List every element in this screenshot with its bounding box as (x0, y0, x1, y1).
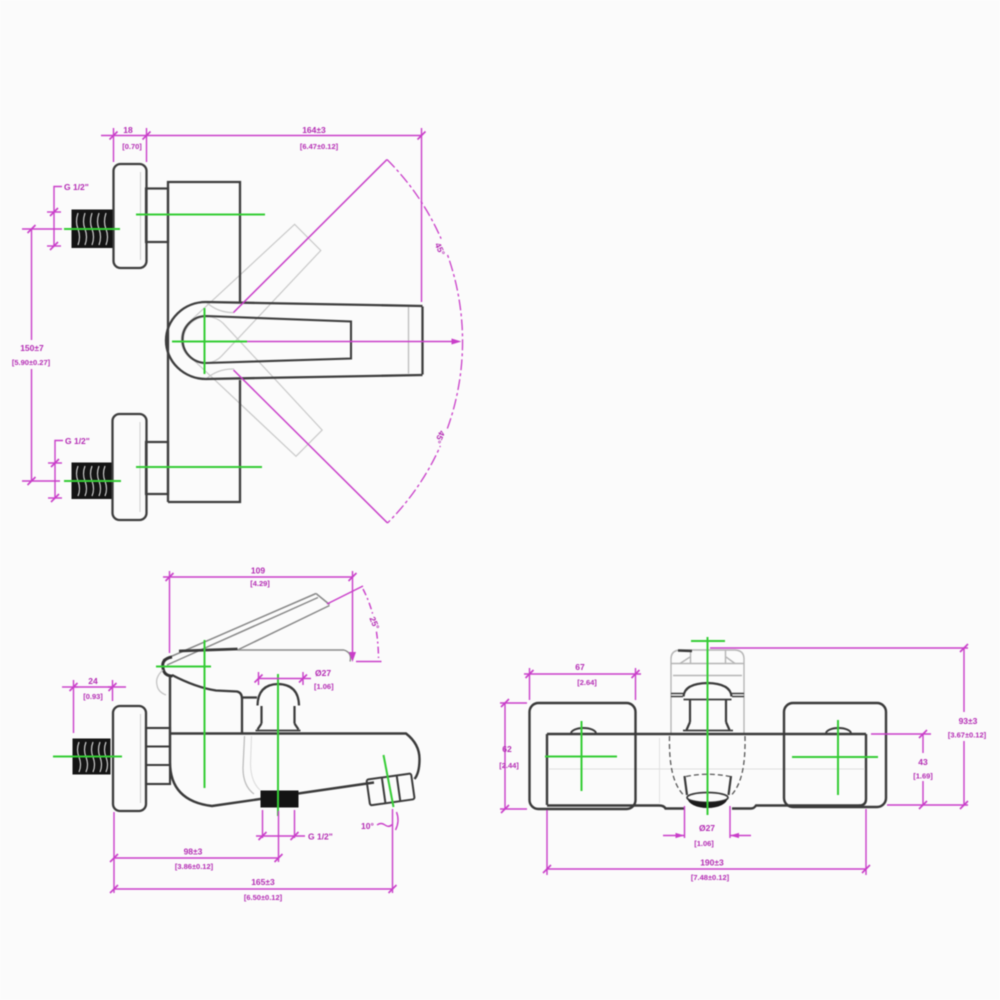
svg-text:[5.90±0.27]: [5.90±0.27] (12, 358, 51, 367)
svg-text:G 1/2": G 1/2" (65, 436, 90, 446)
svg-text:[0.70]: [0.70] (122, 142, 142, 151)
centerline left flange cross (545, 721, 617, 791)
dimension G 1/2 upper (47, 187, 62, 247)
dimension 150+-7 centre distance (22, 229, 62, 481)
spout end block (light outline) (671, 650, 744, 733)
svg-text:[1.06]: [1.06] (314, 682, 334, 691)
svg-text:164±3: 164±3 (302, 125, 326, 135)
svg-text:[2.44]: [2.44] (499, 761, 519, 770)
lever handle closed position (light) (238, 650, 351, 662)
wall flange left (530, 703, 636, 809)
svg-text:10°: 10° (361, 821, 374, 831)
svg-text:[0.93]: [0.93] (83, 692, 103, 701)
svg-text:[1.69]: [1.69] (913, 772, 933, 781)
svg-text:[1.06]: [1.06] (694, 839, 714, 848)
svg-text:[6.50±0.12]: [6.50±0.12] (244, 893, 283, 902)
svg-text:43: 43 (918, 757, 928, 767)
connector step lower (146, 442, 168, 494)
lever handle (light outline, raised 25deg) (163, 594, 330, 666)
dimension 62 [2.44] (500, 703, 527, 809)
spout block top dark segment (678, 649, 692, 652)
svg-text:G 1/2": G 1/2" (308, 832, 333, 842)
aerator front (685, 776, 732, 803)
svg-text:Ø27: Ø27 (699, 823, 715, 833)
dimension 165+-3 (114, 809, 393, 893)
spout slot (hairpin) (182, 316, 351, 363)
wall flange (113, 706, 146, 811)
connector steps (146, 728, 170, 784)
cap side tab (light) (157, 670, 166, 695)
svg-text:67: 67 (575, 662, 585, 672)
dimension 93+-3 (710, 648, 968, 805)
threaded nipple G1/2 (73, 739, 110, 774)
dimension 24 [0.93] (62, 680, 126, 733)
dimension 43 [1.69] (871, 734, 931, 805)
svg-text:190±3: 190±3 (700, 858, 724, 868)
body top profile / cartridge housing (172, 675, 257, 733)
body bar mid seam (light) (548, 768, 865, 770)
dimension diam 27 aerator (663, 806, 751, 838)
svg-text:109: 109 (251, 566, 265, 576)
wall flange lower (113, 414, 147, 520)
svg-text:93±3: 93±3 (959, 716, 978, 726)
svg-text:G 1/2": G 1/2" (64, 182, 89, 192)
dimension G 1/2 lower (48, 441, 63, 499)
lever back cap (163, 657, 173, 676)
svg-text:98±3: 98±3 (184, 847, 203, 857)
ghost spout slot rotated +45 (phantom position) (172, 220, 324, 372)
svg-text:62: 62 (502, 744, 512, 754)
dimension 67 [2.64] (524, 668, 641, 700)
centerline lever pivot (156, 640, 211, 788)
dimension G 1/2 aerator (256, 810, 305, 838)
spout outline (166, 302, 423, 379)
spout inner tip line (408, 307, 410, 374)
threaded nipple lower G1/2 (72, 463, 111, 499)
centerline diverter/aerator (277, 674, 279, 816)
hidden outline of spout neck (dashed) (669, 736, 745, 795)
centerline hose nozzle (10deg) (384, 755, 394, 807)
main body and spout outline (170, 677, 420, 806)
main body bar (547, 734, 866, 809)
threaded nipple upper G1/2 (72, 210, 112, 248)
svg-text:[4.29]: [4.29] (250, 579, 270, 588)
svg-text:[7.48±0.12]: [7.48±0.12] (691, 873, 730, 882)
svg-text:[3.86±0.12]: [3.86±0.12] (175, 862, 214, 871)
main body (168, 182, 240, 502)
nipple ellipse right (826, 728, 851, 733)
dimension 10deg nozzle (377, 812, 398, 830)
diverter knob (256, 684, 301, 731)
connector step upper (146, 189, 168, 243)
aerator outlet (black) (261, 791, 298, 807)
svg-text:[6.47±0.12]: [6.47±0.12] (300, 142, 339, 151)
hose nozzle at spout tip (366, 773, 414, 805)
body inner curves (light) (243, 736, 254, 794)
ghost spout slot rotated -45 (phantom position) (174, 307, 326, 459)
swivel fan 45 degree lines and arc (234, 160, 463, 524)
cartridge cap rim (dark bar) (179, 649, 238, 651)
dimension diam 27 diverter (259, 672, 312, 685)
svg-text:165±3: 165±3 (251, 877, 275, 887)
dimension 109 [4.29] (163, 571, 353, 655)
wall flange upper (114, 164, 147, 268)
dimension 18 [0.70] flange depth (101, 128, 147, 162)
centerline flange lower (64, 467, 262, 481)
centerline nipple (53, 756, 122, 758)
nipple ellipse left (571, 728, 596, 733)
svg-text:150±7: 150±7 (20, 343, 44, 353)
diverter knob front (671, 683, 744, 731)
svg-text:[3.67±0.12]: [3.67±0.12] (948, 731, 987, 740)
wall flange right (784, 703, 886, 807)
svg-text:[2.64]: [2.64] (577, 678, 597, 687)
svg-text:18: 18 (123, 125, 133, 135)
svg-text:Ø27: Ø27 (315, 668, 331, 678)
svg-text:24: 24 (88, 676, 98, 686)
dimension 164+-3 spout length (147, 128, 422, 302)
centerline spout/aerator vertical (691, 637, 725, 815)
dimension 98+-3 (114, 811, 279, 893)
centerline cross at spout pivot (172, 308, 247, 374)
centerline flange upper (64, 215, 265, 230)
dimension 25deg handle arc (327, 586, 382, 662)
dimension 190+-3 (547, 809, 866, 875)
centerline right flange cross (792, 720, 878, 795)
